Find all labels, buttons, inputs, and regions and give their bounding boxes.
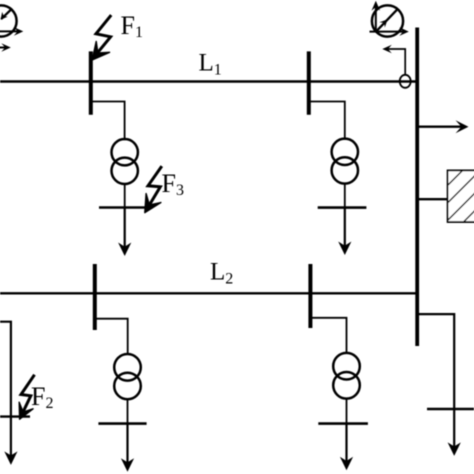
wire: bus to equivalent network box (419, 198, 448, 200)
node N1 (connection circle on L1) (400, 75, 411, 88)
wire: T2 secondary (344, 184, 346, 208)
line L2 (0, 292, 417, 294)
needle diagonal (376, 8, 398, 31)
instrument M2 (top-right) (372, 5, 403, 36)
bus C (L2 left bus tick) (93, 264, 97, 330)
feeder stub (bottom-left, from off-canvas) (0, 322, 11, 457)
wire: bus B to transformer T2 (310, 102, 345, 140)
M1 output arrow (right) (0, 27, 23, 36)
feeder load arrow (4, 451, 17, 465)
T2 load arrow (338, 208, 351, 255)
T3 LV bar (98, 422, 146, 425)
M1 second arrow (right, lower) (0, 43, 11, 52)
wire: node N1 tap to left arrow (382, 45, 405, 75)
instrument M1 (top-left, cut off at edge) (0, 5, 17, 36)
wire: T4 secondary (346, 399, 348, 424)
bus A (L1 left bus tick) (89, 51, 93, 114)
bottom-right load arrow (448, 442, 461, 456)
right bus (main vertical busbar) (415, 28, 419, 347)
fault F2 bolt (19, 375, 34, 420)
transformer T4 (333, 353, 360, 399)
branch: right bus to bottom-right load (417, 314, 454, 447)
wire: bus A to transformer T1 (92, 102, 125, 141)
transformer T1 (112, 139, 138, 184)
export arrow (right of bus) (419, 120, 469, 133)
line L1 (0, 80, 417, 82)
transformer T2 (332, 139, 358, 184)
wire: T1 secondary (124, 184, 126, 208)
fault F1 bolt (92, 15, 111, 60)
T1 LV bar (99, 206, 153, 209)
M2 vertical arrow (up) (372, 1, 381, 32)
wire: bus C to transformer T3 (96, 319, 128, 355)
T4 load arrow (340, 424, 353, 471)
T3 load arrow (121, 424, 134, 472)
feeder bar (0, 415, 30, 417)
bus B (L1 right bus tick) (307, 51, 311, 114)
M2 horizontal arrow (right) (370, 27, 409, 36)
T2 LV bar (318, 206, 367, 209)
fault F3 bolt (145, 166, 162, 213)
transformer T3 (114, 354, 141, 399)
T4 LV bar (318, 422, 368, 425)
wire: T3 secondary (127, 399, 129, 424)
T1 load arrow (118, 208, 131, 257)
bottom-right bar (427, 408, 474, 410)
equivalent network box (hatched) (410, 169, 474, 223)
bus D (L2 right bus tick) (308, 264, 312, 328)
wire: bus D to transformer T4 (312, 318, 347, 354)
